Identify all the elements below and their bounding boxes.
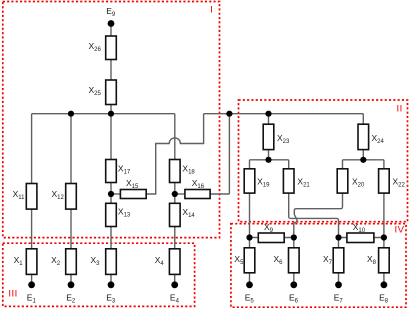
wire X17-X13 node bbox=[110, 183, 112, 204]
wire X2 to E2 bbox=[70, 274, 72, 284]
resistor X14 bbox=[170, 203, 181, 226]
resistor X21 bbox=[283, 169, 294, 193]
svg-text:X25: X25 bbox=[89, 85, 102, 97]
region box IV bbox=[231, 224, 406, 308]
resistor X17 bbox=[106, 160, 117, 183]
wire X4 to E4 bbox=[174, 274, 176, 284]
resistor X11 bbox=[26, 184, 37, 210]
wire X6 to E6 bbox=[293, 273, 295, 285]
junction bus2 X16 riser bbox=[226, 111, 232, 117]
junction bus X12 bbox=[68, 111, 74, 117]
wire E9 stem bbox=[110, 24, 112, 37]
wire X18-X14 node bbox=[174, 183, 176, 204]
region box III bbox=[3, 243, 195, 306]
resistor X25 bbox=[106, 80, 117, 105]
wire bus to X18 bbox=[174, 114, 176, 160]
resistor X20 bbox=[337, 169, 348, 193]
svg-text:E8: E8 bbox=[379, 293, 389, 305]
wire X22 to E8 node bbox=[383, 193, 385, 237]
wire X12 to X2 bbox=[70, 209, 72, 249]
resistor X4 bbox=[169, 249, 180, 275]
junction X17-X13-X15 bbox=[108, 191, 114, 197]
wire X14 to X4 bbox=[174, 227, 176, 249]
region box II bbox=[239, 100, 408, 222]
svg-text:X21: X21 bbox=[297, 176, 310, 188]
svg-text:X26: X26 bbox=[89, 41, 102, 53]
wire bar right pair bbox=[343, 159, 384, 161]
node E4 terminal bbox=[171, 281, 178, 288]
region box I bbox=[3, 2, 220, 238]
svg-text:X4: X4 bbox=[155, 255, 165, 267]
resistor X2 bbox=[66, 249, 77, 275]
resistor X12 bbox=[66, 184, 77, 210]
wire X25-bus bbox=[110, 105, 112, 114]
resistor X23 bbox=[263, 124, 274, 149]
svg-text:E7: E7 bbox=[334, 293, 344, 305]
wire bus to X23 bbox=[268, 114, 270, 125]
wire node to X7 bbox=[338, 238, 340, 248]
node E3 terminal bbox=[108, 281, 115, 288]
svg-text:X16: X16 bbox=[192, 178, 205, 190]
wire node to X16 bbox=[175, 193, 185, 195]
svg-text:X3: X3 bbox=[91, 255, 101, 267]
svg-text:E1: E1 bbox=[27, 293, 37, 305]
svg-text:X24: X24 bbox=[372, 133, 385, 145]
wire X11 to X1 bbox=[31, 209, 33, 249]
wire X3 to E3 bbox=[110, 274, 112, 284]
wire X13 to X3 bbox=[110, 227, 112, 249]
wire X7 to E7 bbox=[338, 273, 340, 285]
svg-text:X22: X22 bbox=[393, 176, 406, 188]
svg-text:X6: X6 bbox=[274, 254, 284, 266]
wire bus region II bbox=[204, 113, 364, 115]
resistor X24 bbox=[358, 124, 369, 149]
svg-text:X14: X14 bbox=[182, 207, 195, 219]
wire X16 to riser bbox=[210, 193, 229, 195]
wire X20 to E6 node crossing bbox=[294, 193, 343, 237]
svg-text:E4: E4 bbox=[170, 293, 180, 305]
node E2 terminal bbox=[68, 281, 75, 288]
resistor X3 bbox=[106, 249, 117, 275]
resistor X19 bbox=[244, 169, 255, 193]
svg-text:E5: E5 bbox=[245, 293, 255, 305]
svg-text:X7: X7 bbox=[323, 254, 333, 266]
wire X19 to E5 node bbox=[249, 193, 251, 237]
wire X5 to E5 bbox=[249, 273, 251, 285]
svg-text:X9: X9 bbox=[264, 222, 274, 234]
wire node to X15 bbox=[111, 193, 120, 195]
node E1 terminal bbox=[28, 281, 35, 288]
wire X1 to E1 bbox=[31, 274, 33, 284]
resistor X26 bbox=[106, 36, 117, 60]
junction X24 bar bbox=[360, 157, 366, 163]
resistor X16 bbox=[185, 190, 210, 199]
wire bar left pair bbox=[250, 159, 289, 161]
wire node to X6 bbox=[293, 238, 295, 248]
svg-text:X15: X15 bbox=[126, 178, 139, 190]
svg-text:III: III bbox=[8, 288, 17, 299]
svg-text:X18: X18 bbox=[182, 163, 195, 175]
wire X16 riser bbox=[228, 114, 230, 194]
resistor X6 bbox=[289, 248, 300, 273]
resistor X8 bbox=[379, 248, 390, 273]
junction X23 bar bbox=[265, 157, 271, 163]
resistor X5 bbox=[244, 248, 255, 273]
wire bar to X21 bbox=[288, 160, 290, 169]
resistor X18 bbox=[170, 160, 181, 183]
svg-text:X8: X8 bbox=[367, 254, 377, 266]
junction E5 node bbox=[246, 234, 252, 240]
svg-text:I: I bbox=[210, 5, 213, 16]
wire X15 riser with hop to bus II bbox=[146, 114, 203, 194]
svg-text:E2: E2 bbox=[66, 293, 76, 305]
resistor X13 bbox=[106, 203, 117, 226]
resistor X22 bbox=[379, 169, 390, 193]
wire bus to X17 bbox=[110, 114, 112, 160]
svg-text:X12: X12 bbox=[52, 189, 65, 201]
junction E7 node bbox=[335, 234, 341, 240]
svg-text:X1: X1 bbox=[14, 255, 24, 267]
wire bus to X11 bbox=[31, 114, 33, 184]
wire X8 to E8 bbox=[383, 273, 385, 285]
junction E8 node bbox=[381, 234, 387, 240]
svg-text:X20: X20 bbox=[352, 176, 365, 188]
node E5 terminal bbox=[246, 281, 253, 288]
svg-text:X10: X10 bbox=[353, 222, 366, 234]
wire bus region I bbox=[32, 113, 175, 115]
resistor X1 bbox=[26, 249, 37, 275]
wire X23 to bar bbox=[268, 150, 270, 160]
svg-text:X23: X23 bbox=[277, 133, 290, 145]
junction bus X25-X17 bbox=[108, 111, 114, 117]
node E8 terminal bbox=[381, 281, 388, 288]
wire bar to X19 bbox=[249, 160, 251, 169]
resistor X10 bbox=[347, 233, 374, 243]
junction bus2 X23 bbox=[265, 111, 271, 117]
wire node to X5 bbox=[249, 238, 251, 248]
wire bus to X24 bbox=[362, 114, 364, 125]
wire node to X8 bbox=[383, 238, 385, 248]
wire bus to X12 bbox=[70, 114, 72, 184]
svg-text:X13: X13 bbox=[118, 207, 131, 219]
svg-text:X17: X17 bbox=[118, 163, 131, 175]
svg-text:E6: E6 bbox=[289, 293, 299, 305]
resistor X7 bbox=[333, 248, 344, 273]
svg-text:E9: E9 bbox=[106, 6, 116, 18]
svg-text:X5: X5 bbox=[234, 254, 244, 266]
wire X26-X25 bbox=[110, 60, 112, 81]
node E6 terminal bbox=[290, 281, 297, 288]
wire X24 to bar bbox=[362, 150, 364, 160]
resistor X9 bbox=[258, 233, 284, 243]
wire IV left pair bbox=[250, 237, 294, 239]
junction E6 node bbox=[291, 234, 297, 240]
svg-text:X19: X19 bbox=[257, 176, 270, 188]
node E9 terminal bbox=[108, 20, 115, 27]
node E7 terminal bbox=[335, 281, 342, 288]
resistor X15 bbox=[120, 190, 146, 199]
svg-text:E3: E3 bbox=[106, 293, 116, 305]
junction X18-X14-X16 bbox=[172, 191, 178, 197]
wire IV right pair bbox=[339, 237, 384, 239]
svg-text:X2: X2 bbox=[51, 255, 61, 267]
wire bar to X20 bbox=[342, 160, 344, 169]
svg-text:II: II bbox=[397, 104, 403, 115]
wire X21 to E7 node bbox=[289, 193, 339, 237]
svg-text:X11: X11 bbox=[13, 189, 26, 201]
svg-text:IV: IV bbox=[395, 224, 405, 235]
wire bar to X22 bbox=[383, 160, 385, 169]
